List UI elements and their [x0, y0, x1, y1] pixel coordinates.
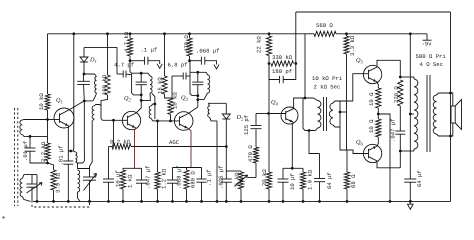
wire 3.3k down to T4 secondary tap: [346, 54, 348, 112]
transistor Q6 (output): [363, 144, 381, 162]
wire: [399, 60, 401, 77]
svg-text:10 kΩ: 10 kΩ: [38, 93, 45, 110]
svg-text:220 Ω: 220 Ω: [393, 86, 400, 103]
svg-text:4.7 kΩ: 4.7 kΩ: [123, 31, 130, 52]
capacitor 125 pf: [251, 125, 262, 127]
wire T4 primary bottom to 64uf: [309, 131, 320, 154]
wire tank winding to ground rail: [22, 197, 30, 202]
wire AGC bus to detector: [131, 146, 226, 148]
pot wiper arrow: [235, 175, 248, 187]
variable capacitor C1b (tuning gang, oscillator): [89, 166, 91, 177]
resistor 220 ohm: [398, 80, 403, 106]
svg-text:.025 μf: .025 μf: [218, 166, 225, 190]
capacitor 180 pf (across 330k): [269, 64, 279, 80]
wire down to Q4 base: [268, 64, 270, 114]
resistor 20 kohm: [266, 172, 271, 189]
wire 15k bottom jog to 10k top: [165, 94, 173, 98]
wire tank top edge: [22, 175, 37, 179]
wire: [377, 108, 379, 114]
battery terminal -9v: [426, 34, 428, 40]
node Q1 base: [46, 118, 49, 121]
resistor 1 kohm (Q2 emitter): [120, 170, 125, 189]
svg-text:1 kΩ: 1 kΩ: [127, 174, 134, 188]
transformer T1 tuned winding (osc/IF tank): cap + coil: [84, 74, 97, 77]
junction tickler / Q1 emitter line: [68, 150, 73, 152]
potentiometer 5 kohm (volume): [226, 170, 241, 172]
wire to Q4 base node: [256, 113, 269, 115]
svg-text:8.2 kΩ: 8.2 kΩ: [110, 139, 131, 146]
transformer T4 core: [323, 97, 325, 131]
transistor Q4 (driver): [281, 107, 298, 124]
wire D1 node over to 4.7pf cap: [84, 48, 117, 74]
wire supply to T4 primary top: [304, 34, 306, 98]
svg-text:3.3 kΩ: 3.3 kΩ: [349, 35, 356, 56]
wire: [157, 189, 159, 201]
resistor 470 ohm (AF): [255, 163, 257, 178]
resistor 15 kohm: [164, 34, 166, 76]
wire emitter node: [123, 167, 142, 169]
wire 4.7k node down to T2: [130, 61, 132, 73]
junction 2.2k / .01uf / 3.9k: [46, 162, 49, 165]
svg-text:.047 μf: .047 μf: [145, 166, 152, 190]
resistor 330 kohm: [271, 61, 294, 66]
resistor 680 ohm (Q3 emitter): [184, 170, 189, 189]
wire coupling coil down to C1b: [90, 121, 93, 167]
capacitor .01 uf (antenna bypass): [29, 135, 32, 138]
diode D2 (detector): [225, 103, 227, 114]
wire to output transformer primary bottom: [400, 150, 414, 152]
junction secondary bottom / speaker line: [449, 135, 452, 138]
wire supply rail -9V (upper-left horizontal): [48, 33, 306, 35]
transformer T2 (1st IF): tank cap + primary coil: [132, 73, 150, 76]
transformer T3 (2nd IF): tank cap + primary coil: [190, 72, 208, 75]
svg-text:10 Ω: 10 Ω: [368, 92, 375, 106]
wire Q1 collector to osc/IF node: [69, 101, 85, 110]
svg-text:68 Ω: 68 Ω: [350, 174, 357, 188]
wire from top rail down to 330k node: [295, 12, 297, 64]
resistor 2.2 kohm (Q1 emitter-bias leg): [45, 143, 50, 161]
wire Q5 collector: [377, 60, 400, 67]
wire: [399, 151, 401, 168]
capacitor .01 uf (Q1 emitter bypass): [63, 160, 73, 162]
junction T2 bottom / Q2 collector: [140, 99, 143, 102]
oscillator tickler winding: [76, 152, 78, 162]
wire 3.9k to ground rail: [53, 190, 55, 201]
wire: [129, 56, 131, 61]
arrow symbol (to chassis): [157, 64, 162, 69]
junction AGC / detector line: [225, 145, 228, 148]
resistor 3.3 kohm: [344, 36, 349, 54]
antenna coupling winding L1a: [20, 120, 22, 135]
transformer T5 (output) primary: [413, 77, 415, 79]
wire emitter node: [283, 167, 303, 169]
svg-text:15 kΩ: 15 kΩ: [157, 77, 164, 94]
junction T4 primary bottom tap: [308, 129, 311, 132]
wire primary center tap: [410, 113, 414, 115]
resistor 68 ohm (bias): [344, 172, 349, 189]
wire: [47, 161, 49, 164]
junction .047 / primary bottom: [399, 150, 402, 153]
capacitor 4.7 pf (coupling): [122, 71, 124, 78]
wire tank right side to rail: [36, 175, 38, 202]
T1 primary coil: [94, 77, 96, 94]
junction secondary top / speaker line: [449, 92, 452, 95]
resistor 1.0 kohm (Q4 emitter): [300, 172, 305, 189]
svg-text:22 kΩ: 22 kΩ: [256, 36, 263, 53]
transistor Q1 (converter): [54, 108, 74, 128]
wire Q4 collector to T4 primary top: [294, 98, 314, 109]
dashed mechanical gang link C1a-C1b: [32, 196, 90, 207]
junction Q4 base / 125pf coupling: [267, 112, 270, 115]
svg-text:470 Ω: 470 Ω: [183, 35, 190, 52]
capacitor 10 uf (Q4 emitter bypass): [282, 168, 284, 179]
wire: [305, 33, 314, 35]
wire T1 coil bottom curl: [93, 93, 97, 101]
wire tap down to 68 ohm: [346, 112, 349, 172]
junction D1 / tank top: [83, 73, 86, 76]
wire: [84, 100, 93, 102]
wire Q4 emitter down: [292, 122, 293, 168]
wire antenna winding bottom to 2.2k column: [22, 135, 47, 137]
svg-text:2.2 kΩ: 2.2 kΩ: [40, 141, 47, 162]
svg-text:10 kΩ: 10 kΩ: [172, 92, 179, 109]
resistor 10 ohm (Q6 emitter): [376, 119, 381, 137]
transistor Q3 (2nd IF): [174, 112, 193, 131]
wire Q4 base: [269, 113, 286, 115]
junction ground rail / -9V bypass line: [409, 200, 412, 203]
speaker LS1: [451, 93, 453, 106]
wire Q3 emitter node: [173, 167, 202, 169]
wire T4 secondary top to Q5 base: [340, 74, 368, 101]
svg-text:.068 μf: .068 μf: [196, 48, 220, 55]
wire Q2 collector up to T2 tank: [136, 95, 141, 113]
wire jog to 3.9k: [48, 163, 54, 170]
capacitor 10 uf (AGC filter): [108, 147, 110, 180]
wire T4 secondary bottom to Q6 base: [340, 127, 368, 154]
svg-text:680 Ω: 680 Ω: [190, 171, 197, 188]
wire: [47, 110, 49, 120]
wire Q3 collector up to T3 tank: [188, 96, 198, 114]
capacitor 6.8 pf (neutralizing): [172, 75, 183, 77]
wire center tap: [340, 111, 347, 113]
wire: [399, 106, 401, 131]
wire AGC bus: [112, 120, 114, 146]
wire: [122, 168, 124, 170]
resistor 1.2 kohm: [155, 172, 160, 189]
junction T4 secondary center tap: [339, 111, 342, 114]
svg-text:4.7 pf: 4.7 pf: [114, 62, 134, 69]
wire 470 node down to T3: [189, 61, 192, 73]
capacitor .068 uf (bypass): [190, 60, 202, 62]
capacitor .1 uf (AGC bypass): [130, 60, 145, 62]
junction 330k / top rail feed: [294, 62, 297, 65]
wire wiper to 470 ohm: [248, 177, 257, 179]
capacitor .047 uf (tone): [395, 130, 405, 132]
resistor 100 kohm: [107, 34, 109, 75]
wire right-edge vertical rail: [450, 12, 452, 201]
junction 4.7k / .1uf: [129, 59, 132, 62]
resistor 22 kohm: [266, 36, 271, 56]
capacitor .047 uf (Q2 emitter bypass): [141, 168, 143, 180]
capacitor 64 uf (electrolytic): [319, 154, 321, 179]
wire base line down to 1.2k: [157, 121, 159, 172]
svg-text:6.8 pf: 6.8 pf: [168, 62, 188, 69]
wire rail to 22k: [268, 34, 270, 36]
wire: [377, 137, 378, 146]
wire: [268, 56, 270, 64]
resistor 560 ohm (series in supply rail): [314, 31, 336, 36]
wire emitter return to ground rail: [378, 114, 390, 201]
wire osc winding tie to C1b: [78, 163, 90, 169]
svg-text:20 kΩ: 20 kΩ: [261, 169, 268, 186]
wire T3 secondary top to detector diode: [208, 102, 226, 104]
wire T1 coupling coil to Q2 base: [103, 119, 128, 121]
transformer T4 (driver) primary: [303, 98, 316, 131]
capacitor .068 uf (Q3 emitter bypass): [172, 168, 174, 181]
junction Q4 emitter node: [291, 167, 294, 170]
junction center tap / -9V line: [409, 113, 412, 116]
wire: [255, 130, 257, 148]
svg-text:.1 μf: .1 μf: [206, 169, 213, 186]
junction Q2 base / 8.2k AGC feed: [112, 119, 115, 122]
wire 100k to osc coupling coil top: [101, 95, 108, 106]
svg-text:.01 μf: .01 μf: [58, 145, 65, 165]
resistor 4.7 kohm: [127, 38, 132, 56]
junction emitter resistors / ground return: [377, 113, 380, 116]
svg-text:1.2 kΩ: 1.2 kΩ: [161, 168, 168, 189]
svg-text:.1 μf: .1 μf: [141, 47, 158, 54]
svg-text:10 Ω: 10 Ω: [368, 119, 375, 133]
svg-text:1.0 kΩ: 1.0 kΩ: [307, 169, 314, 190]
transformer T4 secondary: [329, 103, 333, 125]
wire T3 coil bottom to collector node: [198, 93, 208, 100]
wire Q1 emitter down: [67, 126, 70, 156]
transformer T2 secondary coil: [152, 94, 155, 120]
wire T3 secondary bottom to ground: [216, 121, 218, 201]
wire T1 node down to osc tickler winding: [83, 101, 85, 151]
svg-text:.047 μf: .047 μf: [390, 119, 397, 143]
resistor 3.9 kohm: [51, 170, 56, 190]
capacitor 64 uf (supply bypass): [404, 178, 416, 180]
junction T3 bottom / Q3 collector: [196, 98, 199, 101]
wire base node down to 2.2k: [47, 120, 49, 144]
transistor Q2 (1st IF): [122, 111, 140, 129]
wire Q6 collector: [377, 161, 400, 168]
svg-text:AGC: AGC: [169, 139, 180, 146]
wire Q3 base line: [158, 120, 180, 122]
svg-text:64 μf: 64 μf: [326, 172, 333, 189]
svg-text:10 kΩ Pri: 10 kΩ Pri: [312, 75, 343, 82]
diode D1: [83, 48, 85, 57]
wire Q2 emitter down (dark red in original): [135, 128, 136, 168]
wire Q3 emitter down (dark red in original): [188, 128, 191, 167]
svg-text:125 pf: 125 pf: [243, 115, 250, 135]
transformer T5 secondary: [433, 95, 436, 134]
oscillator tuned winding: [78, 170, 80, 192]
svg-text:470 Ω: 470 Ω: [247, 145, 254, 162]
junction 470 ohm / .068 uf: [188, 59, 191, 62]
junction Q3 base / 10k: [169, 120, 172, 123]
junction supply / T4 primary top: [304, 97, 307, 100]
wire rail down left side of T1 to osc tickler winding: [72, 34, 74, 151]
speck (scan artifact): [2, 216, 4, 218]
resistor 470 ohm: [187, 38, 192, 56]
svg-text:.01 μf: .01 μf: [22, 141, 29, 161]
resistor 10 ohm (Q5 emitter): [376, 88, 381, 108]
svg-text:330 kΩ: 330 kΩ: [272, 54, 293, 61]
wire: [377, 114, 379, 119]
junction supply rail / output-transformer center-tap line: [409, 32, 412, 35]
svg-text:3.9 kΩ: 3.9 kΩ: [55, 172, 62, 193]
svg-text:64 μf: 64 μf: [416, 170, 423, 187]
wire: [268, 189, 270, 201]
svg-text:500 Ω Pri: 500 Ω Pri: [416, 53, 447, 60]
wire to output transformer primary top: [400, 76, 414, 78]
ferrite rod (dashed) left line: [14, 108, 16, 206]
ferrite rod (dashed) right line: [17, 108, 19, 206]
junction 22k / 330k: [268, 62, 271, 65]
capacitor .025 uf (RF filter): [225, 171, 227, 179]
wire: [189, 56, 191, 61]
svg-text:2 kΩ Sec: 2 kΩ Sec: [314, 84, 341, 91]
wire T2 coil bottom to collector node: [141, 93, 150, 100]
svg-text:4 Ω Sec: 4 Ω Sec: [420, 61, 444, 68]
arrow symbol (to chassis): [214, 65, 219, 70]
wire Q5 emitter down: [377, 82, 378, 88]
wire -9V rail down to 10k: [47, 34, 49, 94]
variable capacitor C1a (tuning gang, antenna): [31, 175, 33, 184]
ground symbol (chassis arrow): [409, 201, 411, 204]
wire: [346, 189, 348, 201]
transistor Q5 (output): [363, 65, 381, 83]
wire Q1 base: [48, 119, 60, 121]
junction 220 ohm / primary top: [399, 76, 402, 79]
node T1 bottom / Q1 collector: [83, 100, 86, 103]
wire T2 secondary bottom to Q3 base line: [153, 120, 158, 122]
svg-text:-9v: -9v: [422, 41, 433, 48]
wire antenna winding top to Q1 base node: [22, 119, 47, 122]
transformer T5 core: [426, 75, 428, 152]
wire Q4 base node down to 20k: [268, 114, 270, 173]
oscillator coupling coil (T1 secondary): [94, 105, 101, 106]
wire supply rail to -9v terminal: [336, 33, 427, 35]
svg-text:560 Ω: 560 Ω: [316, 22, 333, 29]
wire: [122, 189, 124, 201]
svg-text:100 kΩ: 100 kΩ: [101, 74, 108, 95]
svg-text:.068 μf: .068 μf: [176, 166, 183, 190]
junction base line / 1.2k: [156, 120, 159, 123]
svg-text:10 μf: 10 μf: [289, 173, 296, 190]
wire detector output down: [225, 147, 227, 172]
antenna tank winding L1b: [20, 179, 22, 197]
wire top rail (B+ return): [296, 11, 451, 13]
wire -9V line down through center tap: [409, 34, 411, 179]
capacitor .5 uf: [201, 168, 203, 180]
resistor 10 kohm (Q3 bias): [168, 98, 173, 114]
resistor 8.2 kohm (AGC): [112, 144, 131, 149]
wire bottom ground rail: [33, 200, 451, 202]
svg-text:180 pf: 180 pf: [272, 68, 292, 75]
wire rail to 4.7k: [129, 34, 131, 38]
resistor 10 kohm (Q1 base bias): [45, 94, 50, 110]
